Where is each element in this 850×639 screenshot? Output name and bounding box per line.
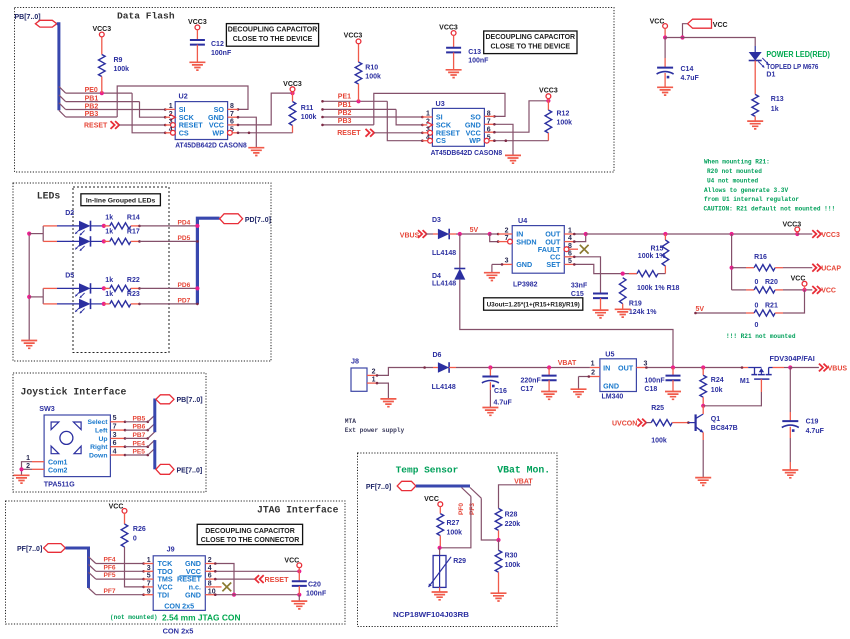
svg-text:VBat Mon.: VBat Mon. xyxy=(497,465,550,476)
wire GND pin3 U4 xyxy=(492,263,502,265)
bus PF (temp) xyxy=(416,485,470,488)
svg-text:LP3982: LP3982 xyxy=(513,282,538,289)
junction VBUS node xyxy=(788,365,792,369)
wire PF6 xyxy=(96,570,144,572)
svg-text:Com2: Com2 xyxy=(48,467,68,474)
wire PE0 row xyxy=(66,92,133,94)
capacitor C20 xyxy=(298,571,300,581)
ground (Q1) xyxy=(695,478,711,486)
wire OUT rail to VCC3 xyxy=(586,233,798,235)
svg-text:2: 2 xyxy=(372,369,376,376)
svg-text:from U1 internal regulator: from U1 internal regulator xyxy=(704,196,799,203)
svg-text:J8: J8 xyxy=(351,357,359,366)
junction rail/D5 xyxy=(27,295,31,299)
junction R10/PE1 xyxy=(356,99,360,103)
svg-text:Q1: Q1 xyxy=(711,416,720,423)
svg-text:RESET: RESET xyxy=(337,130,361,137)
svg-text:C19: C19 xyxy=(806,418,819,425)
svg-text:J9: J9 xyxy=(167,544,175,553)
svg-text:C18: C18 xyxy=(644,386,657,393)
ground (U5) xyxy=(571,389,587,397)
ground (R29) xyxy=(432,592,448,600)
ground (C20) xyxy=(291,601,307,609)
wire U5 OUT rail xyxy=(646,367,742,369)
svg-text:4.7uF: 4.7uF xyxy=(806,428,825,435)
svg-text:R29: R29 xyxy=(453,558,466,565)
bus entry PF7 xyxy=(89,588,96,595)
svg-text:0: 0 xyxy=(133,536,137,543)
wire PE4 xyxy=(125,446,148,448)
bus entry PB1 xyxy=(59,95,66,102)
svg-text:BC847B: BC847B xyxy=(711,425,738,432)
svg-text:R20 not mounted: R20 not mounted xyxy=(707,168,762,175)
svg-text:Joystick Interface: Joystick Interface xyxy=(21,387,127,398)
junction PD4/bus xyxy=(195,224,199,228)
junction C18 xyxy=(671,365,675,369)
junction VCC tag rail xyxy=(680,35,684,39)
junction R24 bottom xyxy=(701,404,705,408)
svg-text:CS: CS xyxy=(436,136,446,145)
wire D2 anode tie xyxy=(29,233,43,235)
svg-text:C17: C17 xyxy=(521,386,534,393)
svg-text:0: 0 xyxy=(755,322,759,329)
svg-text:UCAP: UCAP xyxy=(821,265,841,272)
svg-text:Temp Sensor: Temp Sensor xyxy=(396,465,459,476)
junction R16 left xyxy=(730,266,734,270)
svg-text:VCC: VCC xyxy=(284,557,299,564)
port VBUS (output) xyxy=(819,364,828,372)
svg-text:0: 0 xyxy=(755,302,759,309)
section box LEDs xyxy=(13,183,271,361)
bus entry PF5 xyxy=(89,572,96,579)
junction R27/R29/PF0 xyxy=(438,546,442,550)
svg-text:PF7: PF7 xyxy=(104,588,116,595)
svg-text:100k: 100k xyxy=(114,66,130,73)
svg-text:VBUS: VBUS xyxy=(400,232,420,239)
section box Joystick Interface xyxy=(13,373,206,492)
svg-text:FDV304P/FAI: FDV304P/FAI xyxy=(770,356,815,363)
svg-text:CLOSE TO THE CONNECTOR: CLOSE TO THE CONNECTOR xyxy=(201,537,300,544)
section box Data Flash xyxy=(15,8,615,173)
wire VCC to rail xyxy=(664,28,666,37)
wire to SHDN pin7 xyxy=(490,234,498,242)
svg-text:1k: 1k xyxy=(771,106,779,113)
bus PE (joystick) xyxy=(153,440,156,469)
svg-text:PB1: PB1 xyxy=(338,102,352,109)
ground (C12) xyxy=(189,62,205,70)
wire PE5 xyxy=(125,454,148,456)
wire R16 to UCAP xyxy=(783,267,812,269)
port VCC xyxy=(812,286,821,294)
joystick icon triangle TL xyxy=(51,422,59,430)
svg-text:33nF: 33nF xyxy=(571,282,588,289)
svg-text:PD5: PD5 xyxy=(178,235,191,242)
svg-text:100k: 100k xyxy=(651,438,667,445)
ground (C14) xyxy=(657,87,673,95)
wire OUT tie xyxy=(574,234,585,242)
wire LED left rail to ground xyxy=(28,234,30,341)
svg-text:SW3: SW3 xyxy=(39,404,55,413)
svg-text:R26: R26 xyxy=(133,526,146,533)
wire PF5 xyxy=(96,578,144,580)
ground (U2 pin7) xyxy=(248,148,264,156)
bus entry PF6 xyxy=(89,565,96,572)
svg-text:C13: C13 xyxy=(468,49,481,56)
svg-text:PD7: PD7 xyxy=(178,297,191,304)
svg-text:10k: 10k xyxy=(711,387,723,394)
svg-text:100k: 100k xyxy=(365,74,381,81)
power tag VCC xyxy=(688,19,712,28)
junction OUT xyxy=(584,232,588,236)
wire VCC tag down xyxy=(683,24,688,38)
wire to IN pin2 xyxy=(490,233,498,235)
svg-text:PF[7..0]: PF[7..0] xyxy=(17,546,42,553)
junction PD7/bus xyxy=(196,303,199,306)
svg-text:AT45DB642D CASON8: AT45DB642D CASON8 xyxy=(431,150,503,157)
junction VCC3 out xyxy=(795,232,799,236)
svg-text:LEDs: LEDs xyxy=(37,191,61,202)
svg-text:100k: 100k xyxy=(447,529,463,536)
overline VCC pin4 J9 xyxy=(179,575,202,577)
wire PB5 xyxy=(125,421,148,423)
wire Com1/Com2 to ground xyxy=(22,462,33,476)
bus PB (joystick) xyxy=(153,399,156,433)
svg-text:U3out=1.25*(1+(R15+R18)/R19): U3out=1.25*(1+(R15+R18)/R19) xyxy=(487,301,580,308)
svg-text:R11: R11 xyxy=(301,105,314,112)
wire PF7 xyxy=(96,594,144,596)
port PD[7..0] xyxy=(220,214,243,224)
wire J8 pin2 to rail xyxy=(377,368,433,376)
port VCC3 xyxy=(812,230,821,238)
LED D2b xyxy=(43,240,57,242)
svg-text:4.7uF: 4.7uF xyxy=(681,75,700,82)
junction Com2/ground rail xyxy=(19,467,23,471)
svg-text:PB[7..0]: PB[7..0] xyxy=(177,397,203,404)
svg-text:DECOUPLING CAPACITOR: DECOUPLING CAPACITOR xyxy=(205,528,295,535)
svg-text:1k: 1k xyxy=(105,214,113,221)
svg-text:U3: U3 xyxy=(436,99,445,108)
note box decoupling capacitor (device 2) xyxy=(484,31,577,54)
svg-text:VBUS: VBUS xyxy=(828,365,848,372)
svg-text:D6: D6 xyxy=(433,352,442,359)
svg-text:CON 2x5: CON 2x5 xyxy=(164,602,194,611)
svg-text:VCC: VCC xyxy=(821,288,836,295)
svg-text:CLOSE TO THE DEVICE: CLOSE TO THE DEVICE xyxy=(490,43,570,50)
LED D1 xyxy=(754,46,756,52)
LED D2a xyxy=(43,225,57,227)
svg-text:D4: D4 xyxy=(432,273,441,280)
wire rail to D1 xyxy=(665,38,755,47)
wire GND pin2 U5 xyxy=(579,376,589,378)
svg-text:M1: M1 xyxy=(740,378,750,385)
svg-text:PF3: PF3 xyxy=(469,503,476,515)
wire WP pin5 to R12 xyxy=(494,140,548,142)
ground (U3 pin7) xyxy=(505,155,521,163)
svg-text:WP: WP xyxy=(469,136,481,145)
wire VCC pin6 U2 xyxy=(238,93,293,125)
svg-text:POWER LED(RED): POWER LED(RED) xyxy=(766,50,830,59)
svg-text:PD4: PD4 xyxy=(178,219,191,226)
wire R25 to Q1 base xyxy=(680,422,688,424)
svg-text:AT45DB642D CASON8: AT45DB642D CASON8 xyxy=(175,143,247,150)
svg-text:CAUTION: R21 default not mount: CAUTION: R21 default not mounted !!! xyxy=(704,206,836,213)
svg-text:R12: R12 xyxy=(557,110,570,117)
svg-text:SET: SET xyxy=(546,260,561,269)
svg-text:VCC: VCC xyxy=(650,19,665,26)
junction VCC3/R11 xyxy=(290,91,294,95)
svg-text:Left: Left xyxy=(95,428,108,435)
svg-text:0: 0 xyxy=(755,279,759,286)
ground (LEDs) xyxy=(21,341,37,349)
junction VCC/C20 xyxy=(297,569,301,573)
note box In-line Grouped LEDs xyxy=(81,194,160,206)
wire PF3 to R28/R30 node xyxy=(481,498,498,540)
svg-text:In-line Grouped LEDs: In-line Grouped LEDs xyxy=(86,198,156,205)
svg-text:R14: R14 xyxy=(127,214,140,221)
svg-text:PB[7..0]: PB[7..0] xyxy=(15,14,41,21)
svg-text:PD[7..0]: PD[7..0] xyxy=(245,217,271,224)
wire M1 drain to VBUS node xyxy=(773,367,785,369)
wire PB2 row to pin1 xyxy=(66,109,166,111)
svg-text:Data Flash: Data Flash xyxy=(117,11,175,22)
svg-text:PF5: PF5 xyxy=(104,572,116,579)
wire PF4 xyxy=(96,563,144,565)
X mark FAULT xyxy=(580,245,589,254)
svg-text:CLOSE TO THE DEVICE: CLOSE TO THE DEVICE xyxy=(233,36,313,43)
wire PB3 row (U3) xyxy=(323,124,374,126)
capacitor C13 xyxy=(453,35,455,48)
junction R24 top xyxy=(701,365,705,369)
svg-text:MTA: MTA xyxy=(345,418,356,425)
junction IN/SHDN xyxy=(488,232,492,236)
wire 5V to R21 xyxy=(696,312,747,314)
svg-text:100k: 100k xyxy=(505,562,521,569)
wire D6 to U5 IN xyxy=(456,367,590,369)
svg-text:100nF: 100nF xyxy=(306,591,327,598)
wire RESET to pin3 (U3) xyxy=(374,132,422,134)
wire down to R16/R20 xyxy=(731,234,733,290)
wire PE1 to CS (U3) xyxy=(387,101,422,140)
svg-text:DECOUPLING CAPACITOR: DECOUPLING CAPACITOR xyxy=(486,34,576,41)
wire PE0 to CS xyxy=(132,93,165,133)
svg-text:U4 not mounted: U4 not mounted xyxy=(707,178,759,185)
junction PD6/bus xyxy=(195,286,199,290)
joystick icon triangle BL xyxy=(51,446,59,454)
svg-text:1: 1 xyxy=(591,360,595,367)
svg-text:1k: 1k xyxy=(105,291,113,298)
svg-text:D3: D3 xyxy=(432,217,441,224)
section box Temp Sensor / VBat Mon xyxy=(358,453,558,627)
junction R16 bank xyxy=(730,232,734,236)
wire PB1 to SCK xyxy=(140,102,166,118)
wire to ground (C20) xyxy=(298,595,300,601)
svg-text:Com1: Com1 xyxy=(48,460,68,467)
svg-text:VCC: VCC xyxy=(713,22,728,29)
LED D5a xyxy=(43,287,57,289)
wire Q1 emitter to ground xyxy=(702,432,704,440)
junction GND pin10 xyxy=(232,593,236,597)
wire SET node xyxy=(574,264,637,273)
svg-text:100k: 100k xyxy=(301,114,317,121)
wire D3 to junction xyxy=(449,233,456,235)
ground (R30) xyxy=(491,593,507,601)
svg-text:2: 2 xyxy=(591,369,595,376)
svg-text:PE1: PE1 xyxy=(338,94,351,101)
wire GND pin2 to pin10 xyxy=(215,564,234,595)
svg-text:R16: R16 xyxy=(754,254,767,261)
svg-text:PB2: PB2 xyxy=(338,110,352,117)
junction VCC rail C14 xyxy=(663,35,667,39)
bus entry PE0 xyxy=(59,86,66,93)
junction rail/D2 xyxy=(27,232,31,236)
junction C16 xyxy=(488,365,492,369)
note box decoupling capacitor (connector) xyxy=(197,524,302,544)
port UCAP xyxy=(812,264,821,272)
svg-text:PD6: PD6 xyxy=(178,282,191,289)
wire PB3 to SO (top route U3) xyxy=(374,93,505,125)
svg-text:R20: R20 xyxy=(765,279,778,286)
svg-text:Up: Up xyxy=(98,436,107,443)
svg-text:UVCON: UVCON xyxy=(612,420,637,427)
junction C20 bottom xyxy=(297,593,301,597)
svg-text:GND: GND xyxy=(185,590,201,599)
joystick icon triangle TR xyxy=(73,422,81,430)
svg-text:VCC: VCC xyxy=(109,503,124,510)
svg-text:WP: WP xyxy=(212,128,224,137)
svg-text:R13: R13 xyxy=(771,96,784,103)
wire D4 to output rail xyxy=(460,280,673,368)
svg-text:LM340: LM340 xyxy=(602,394,624,401)
junction VCC node xyxy=(802,288,806,292)
svg-text:D5: D5 xyxy=(65,273,74,280)
svg-text:C14: C14 xyxy=(681,66,694,73)
svg-text:CON 2x5: CON 2x5 xyxy=(163,626,194,635)
svg-text:2.54 mm JTAG CON: 2.54 mm JTAG CON xyxy=(162,612,241,622)
wire R21 to VCC node xyxy=(783,290,805,313)
bus PB xyxy=(57,24,59,111)
svg-text:CS: CS xyxy=(179,128,189,137)
net label RESET (JTAG) xyxy=(255,575,264,583)
bus PD xyxy=(197,218,219,304)
bus entry PF3 xyxy=(470,488,481,499)
svg-text:(not mounted): (not mounted) xyxy=(110,614,158,621)
junction R9/PE0 xyxy=(100,91,104,95)
svg-text:C20: C20 xyxy=(308,582,321,589)
svg-text:R28: R28 xyxy=(505,512,518,519)
wire VBUS to D3 xyxy=(426,233,433,235)
svg-text:RESET: RESET xyxy=(265,575,290,584)
junction VCC3/R12 xyxy=(546,99,550,103)
wire PB6 xyxy=(125,429,148,431)
svg-text:3: 3 xyxy=(644,360,648,367)
ground (C13) xyxy=(446,70,462,78)
joystick icon circle xyxy=(60,431,73,444)
wire GND pin10 to C20 xyxy=(215,594,299,596)
wire CC to C15 xyxy=(574,257,600,294)
junction C17 xyxy=(547,365,551,369)
svg-text:R10: R10 xyxy=(365,65,378,72)
svg-text:C16: C16 xyxy=(494,388,507,395)
LED D5b xyxy=(43,303,57,305)
port PE[7..0] (joystick) xyxy=(156,464,174,474)
svg-text:U4: U4 xyxy=(518,216,527,225)
svg-text:LL4148: LL4148 xyxy=(432,384,456,391)
svg-text:LL4148: LL4148 xyxy=(432,281,456,288)
wire R26 to pin7 xyxy=(125,547,144,587)
wire PB1 row xyxy=(66,101,140,103)
svg-text:When mounting R21:: When mounting R21: xyxy=(704,159,770,166)
svg-text:U2: U2 xyxy=(179,92,188,101)
pin 8 n.c. X mark xyxy=(215,586,221,588)
svg-text:NCP18WF104J03RB: NCP18WF104J03RB xyxy=(393,612,469,619)
ground (R13) xyxy=(747,121,763,129)
wire J8 pin1 to ground xyxy=(377,383,388,399)
ground (U4) xyxy=(484,273,500,281)
svg-text:VBAT: VBAT xyxy=(558,360,577,367)
svg-text:Select: Select xyxy=(87,419,108,426)
svg-text:DECOUPLING CAPACITOR: DECOUPLING CAPACITOR xyxy=(228,27,318,34)
junction R15 top xyxy=(663,232,667,236)
section box JTAG Interface xyxy=(6,501,346,624)
junction R28/R30/PF3 xyxy=(496,538,500,542)
svg-text:PF0: PF0 xyxy=(458,503,465,515)
svg-text:SHDN: SHDN xyxy=(516,237,536,246)
svg-text:OUT: OUT xyxy=(618,364,634,373)
ground (J8) xyxy=(380,399,396,407)
svg-text:!!! R21 not mounted: !!! R21 not mounted xyxy=(726,333,796,340)
note box in-line grouped LEDs dashed xyxy=(73,187,169,353)
ground (C17) xyxy=(541,392,557,400)
svg-text:C12: C12 xyxy=(211,41,224,48)
svg-text:D2: D2 xyxy=(65,210,74,217)
ground (R19) xyxy=(615,309,631,317)
svg-text:VCC: VCC xyxy=(424,496,439,503)
svg-text:4.7uF: 4.7uF xyxy=(494,399,513,406)
svg-text:R9: R9 xyxy=(114,57,123,64)
svg-text:R19: R19 xyxy=(629,300,642,307)
wire VCC pin4 to C20 top xyxy=(215,570,299,572)
svg-text:Down: Down xyxy=(89,452,108,459)
bus entry PF0 xyxy=(462,488,471,497)
svg-text:1k: 1k xyxy=(105,228,113,235)
svg-text:100nF: 100nF xyxy=(468,58,489,65)
ground (C19) xyxy=(782,470,798,478)
svg-text:PE[7..0]: PE[7..0] xyxy=(177,467,203,474)
svg-text:3: 3 xyxy=(505,258,509,265)
svg-text:100k 1% R18: 100k 1% R18 xyxy=(637,285,680,292)
svg-text:VCC3: VCC3 xyxy=(821,232,840,239)
svg-text:R22: R22 xyxy=(127,277,140,284)
wire to VBUS port xyxy=(790,367,819,369)
svg-text:R27: R27 xyxy=(447,520,460,527)
wire GND pin7 U2 xyxy=(238,117,256,148)
svg-text:PF6: PF6 xyxy=(104,564,116,571)
svg-text:Right: Right xyxy=(90,444,108,451)
svg-text:R17: R17 xyxy=(127,228,140,235)
switch SW3 body xyxy=(44,415,110,477)
svg-text:Allows to generate 3.3V: Allows to generate 3.3V xyxy=(704,187,788,194)
wire RESET pin6 xyxy=(215,578,256,580)
svg-text:JTAG Interface: JTAG Interface xyxy=(257,505,339,516)
ground (C15) xyxy=(593,310,609,318)
wire WP pin5 to R11 xyxy=(238,132,293,134)
svg-text:VCC3: VCC3 xyxy=(344,33,363,40)
svg-text:D1: D1 xyxy=(766,72,775,79)
junction R19 top xyxy=(621,272,625,276)
svg-text:TOPLED LP M676: TOPLED LP M676 xyxy=(766,64,818,71)
wire PB3 to SO (top route) xyxy=(117,86,248,117)
wire PB7 xyxy=(125,437,148,439)
